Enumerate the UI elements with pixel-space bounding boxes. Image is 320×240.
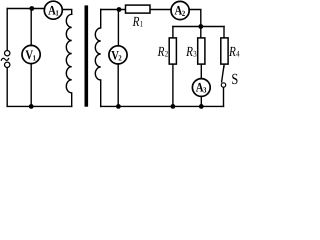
junction node top-left (V1 top) [29,6,34,11]
junction node bottom R2 [171,104,176,109]
secondary winding L2 [95,10,100,107]
wire A3 to bottom bus [200,96,202,106]
wire R3 branch upper [200,27,202,38]
switch S lever [222,67,224,82]
junction node bottom V2 [116,104,121,109]
junction node top-right (V2 top) [117,7,122,12]
wire R4 to switch stub [223,64,225,67]
wire R2 branch lower [172,64,174,106]
transformer core [85,5,89,106]
svg-text:S: S [231,71,238,88]
wire R4 branch upper [223,27,225,38]
resistor R1 box [126,5,151,13]
ammeter A3 circle [192,79,210,97]
primary winding L1 [66,14,71,106]
wire left branch lower [6,67,8,106]
wire top bus of parallel section [173,26,224,28]
voltmeter V1 circle [22,45,40,63]
wire bottom-right bus [101,105,224,107]
AC source tilde [1,58,9,61]
voltmeter V2 circle [109,46,127,64]
source terminal bottom circle [5,62,10,67]
resistor R3 box [198,38,205,64]
wire V1 branch lower [30,64,32,107]
junction node parallel bus top [198,24,203,29]
wire A1 to primary top corner [62,10,71,15]
source terminal top circle [5,51,10,56]
wire top-left to A1 [7,8,44,10]
wire A2 to top-right corner down to bus [189,10,201,27]
junction node bottom A3 [199,104,204,109]
wire V2 branch upper [117,10,119,46]
resistor R4 box [221,38,228,64]
ammeter A2 circle [171,1,189,19]
switch S terminal circle [221,83,225,87]
wire switch to bottom bus [223,87,225,106]
resistor R2 box [169,38,176,64]
wire V2 branch lower [117,64,119,107]
wire bottom-left bus [7,105,72,107]
wire secondary top to R1 [101,9,126,11]
wire left branch upper [6,9,8,51]
wire V1 branch upper [30,9,32,46]
ammeter A1 circle [44,1,62,19]
wire R3 to A3 [200,64,202,79]
junction node bottom V1 [29,104,34,109]
wire R2 branch upper [172,27,174,38]
wire R1 to A2 [150,9,171,11]
